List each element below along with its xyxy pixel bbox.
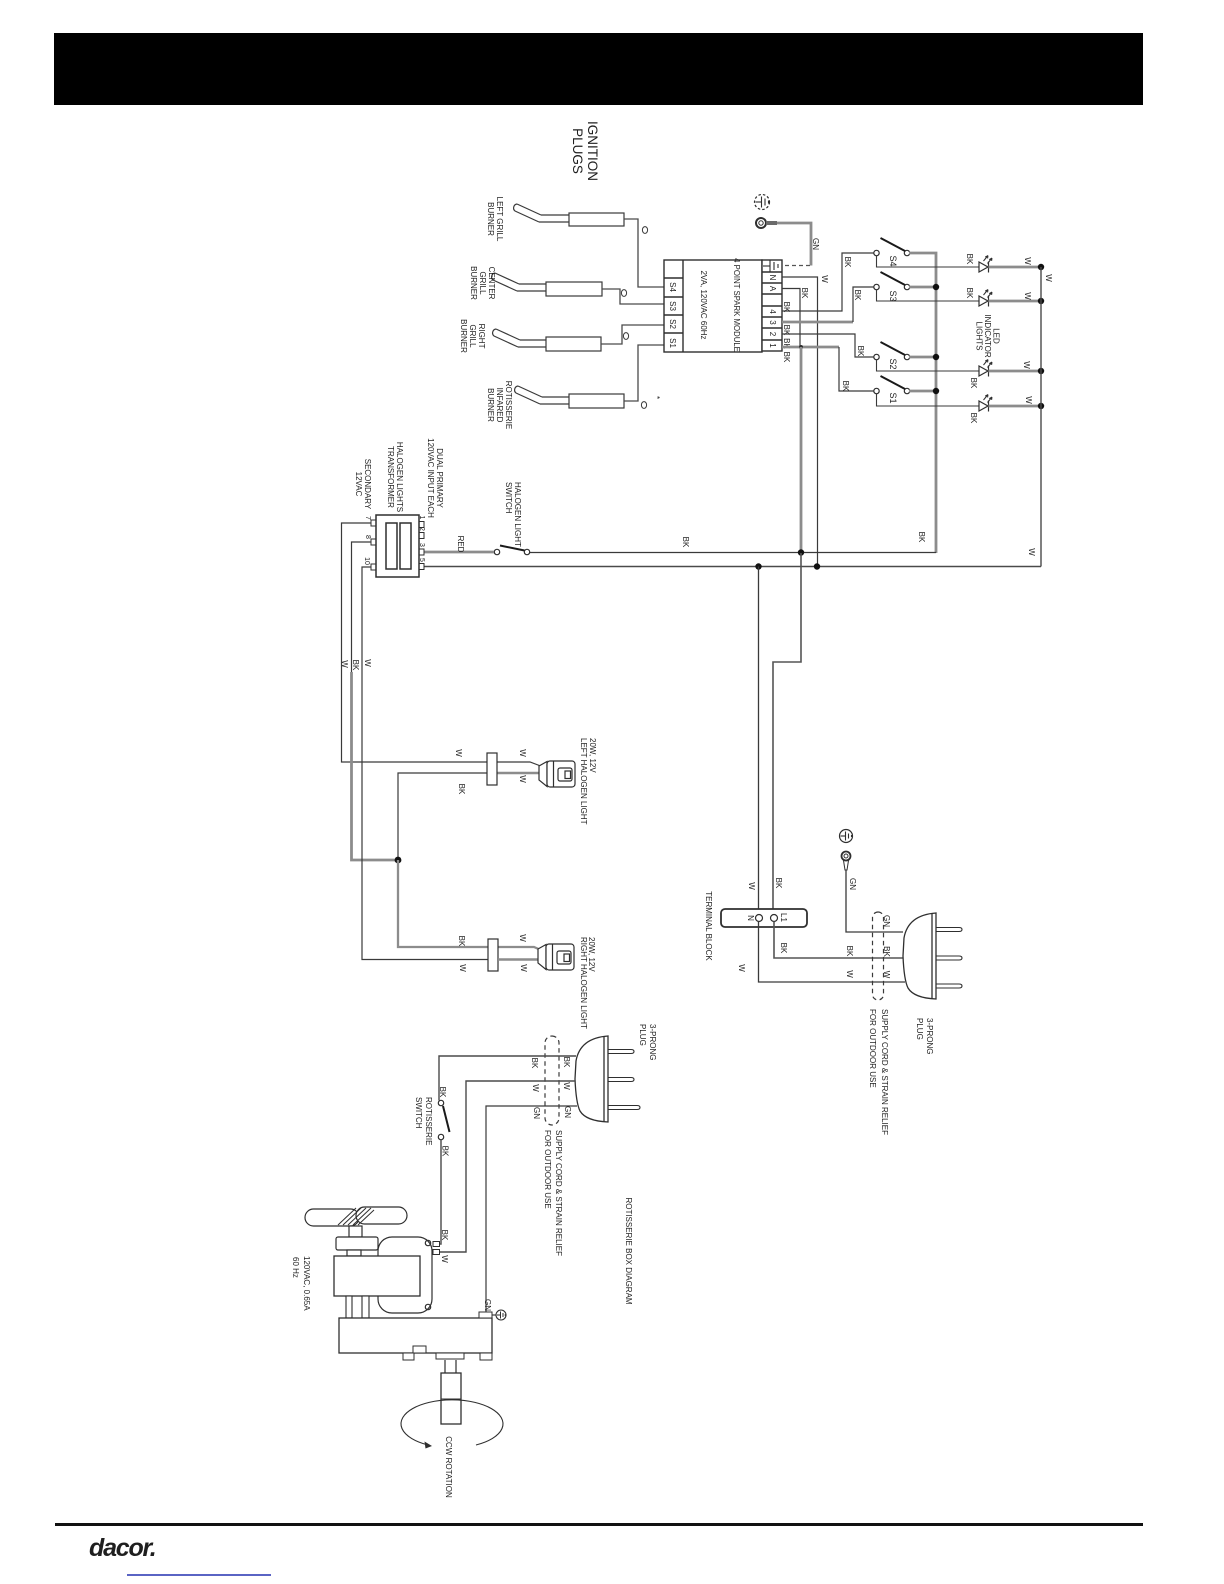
svg-text:BK: BK	[457, 936, 466, 947]
svg-text:GN: GN	[563, 1106, 572, 1118]
GN tab motor base	[479, 1312, 492, 1318]
rotisserie motor M1 fan blades	[305, 1207, 407, 1226]
svg-text:BK: BK	[782, 352, 791, 363]
svg-text:7: 7	[364, 516, 371, 520]
junction LED1 W bus	[1038, 264, 1044, 270]
svg-text:BK: BK	[800, 288, 809, 299]
plug P2 prong BK	[608, 1050, 634, 1054]
svg-text:4: 4	[768, 309, 777, 314]
motor legs	[346, 1296, 369, 1318]
module pin earth ground	[763, 260, 778, 273]
motor collar	[336, 1237, 378, 1250]
output shaft	[445, 1360, 456, 1373]
svg-text:INFARED: INFARED	[495, 388, 504, 423]
svg-text:W: W	[845, 970, 854, 978]
svg-text:20W, 12V: 20W, 12V	[588, 738, 597, 773]
svg-text:TRANSFORMER: TRANSFORMER	[386, 446, 395, 508]
svg-text:HALOGEN LIGHTS: HALOGEN LIGHTS	[395, 442, 404, 512]
svg-text:S3: S3	[888, 290, 898, 301]
switch S1	[874, 376, 910, 404]
svg-text:BK: BK	[965, 254, 974, 265]
ring terminal ground lug top	[756, 218, 777, 228]
connector O on E3 wire	[623, 333, 628, 340]
module terminal strip right	[762, 260, 782, 351]
svg-text:8: 8	[364, 535, 371, 539]
wire W LED1 to bus	[989, 266, 1042, 269]
module text 4 POINT SPARK MODULE 2VA 120VAC 60Hz	[699, 258, 741, 352]
svg-text:BK: BK	[843, 257, 852, 268]
base foot mid	[436, 1353, 464, 1359]
svg-text:W: W	[1027, 548, 1036, 556]
connector O on E4 wire	[641, 402, 646, 409]
svg-text:BK: BK	[856, 346, 865, 357]
terminal block TB1	[721, 909, 807, 927]
connector left lamp	[487, 753, 497, 785]
LED D1	[979, 395, 992, 412]
wire BK transformer pin8 to lamp junction	[352, 542, 399, 860]
svg-text:BK: BK	[530, 1058, 539, 1069]
svg-text:RED: RED	[456, 536, 465, 553]
wire igniter E2 to module S3	[602, 289, 664, 304]
fan hub hatch	[338, 1208, 374, 1225]
svg-text:W: W	[518, 775, 527, 783]
svg-text:BK: BK	[853, 290, 862, 301]
plug P1 prong GN	[936, 928, 962, 932]
wire BK module 1 to switch S1	[782, 347, 874, 391]
transformer T1 box	[376, 515, 419, 577]
title IGNITION PLUGS	[570, 121, 600, 181]
3-prong plug P1 body	[903, 913, 936, 999]
svg-text:W: W	[820, 275, 829, 283]
label CENTER GRILL BURNER	[469, 266, 496, 300]
svg-text:BK: BK	[441, 1146, 450, 1157]
svg-text:BURNER: BURNER	[486, 388, 495, 422]
igniter plug E3 RIGHT GRILL BURNER	[493, 329, 601, 351]
chassis ground symbol mid	[840, 830, 853, 843]
wire GN plug P2 to motor base	[486, 1106, 577, 1313]
label LED INDICATOR LIGHTS	[975, 314, 1001, 357]
igniter plug E1 LEFT GRILL BURNER	[514, 204, 624, 226]
svg-text:W: W	[518, 749, 527, 757]
LED D2	[979, 360, 992, 377]
switch S4	[874, 238, 910, 267]
label 3-PRONG PLUG	[915, 1018, 934, 1054]
junction LED2 W bus	[1038, 298, 1044, 304]
svg-text:W: W	[562, 1082, 571, 1090]
chassis ground symbol top	[755, 195, 770, 210]
transformer pin stubs left	[371, 520, 376, 570]
wire BK module 2 to switch S2	[782, 334, 874, 357]
svg-text:GN: GN	[811, 238, 820, 250]
wire BK terminal block to plug	[774, 922, 905, 959]
svg-text:N: N	[768, 275, 777, 281]
svg-text:SWITCH: SWITCH	[414, 1097, 423, 1129]
wire BK main feed jog to terminal block L1	[773, 553, 801, 915]
LED D4	[979, 256, 992, 273]
strain relief dashed outline rotisserie cord	[545, 1036, 559, 1125]
svg-text:3-PRONG: 3-PRONG	[925, 1018, 934, 1054]
label ROTISSERIE INFARED BURNER	[486, 381, 513, 429]
svg-text:BK: BK	[782, 302, 791, 313]
switch S3	[874, 272, 910, 302]
svg-text:PLUGS: PLUGS	[570, 128, 585, 174]
svg-text:2: 2	[768, 332, 777, 337]
svg-text:HALOGEN LIGHT: HALOGEN LIGHT	[513, 482, 522, 547]
wire BK halogen switch line	[530, 552, 936, 554]
svg-text:ROTISSERIE BOX DIAGRAM: ROTISSERIE BOX DIAGRAM	[624, 1197, 633, 1304]
svg-text:SWITCH: SWITCH	[504, 482, 513, 514]
svg-text:RIGHT: RIGHT	[477, 324, 486, 349]
igniter plug E4 ROTISSERIE INFARED BURNER	[515, 386, 624, 408]
svg-text:BK: BK	[845, 946, 854, 957]
svg-text:A: A	[768, 286, 777, 292]
rotisserie 3-prong plug P2 body	[575, 1036, 608, 1122]
svg-text:W: W	[518, 934, 527, 942]
wire BK module 4 to switch S4	[782, 253, 874, 311]
svg-text:CENTER: CENTER	[487, 267, 496, 300]
svg-text:W: W	[1044, 274, 1053, 282]
label SUPPLY CORD & STRAIN RELIEF FOR OUTDOOR USE	[868, 1009, 889, 1135]
label DUAL PRIMARY 120VAC INPUT EACH	[426, 438, 444, 518]
wire BK main feed down from junction	[800, 347, 803, 553]
wire igniter E4 to module S1	[624, 345, 664, 401]
svg-text:DUAL PRIMARY: DUAL PRIMARY	[435, 448, 444, 508]
svg-text:3-PRONG: 3-PRONG	[648, 1024, 657, 1060]
rotation ellipse arrow	[401, 1400, 503, 1449]
svg-text:S1: S1	[888, 392, 898, 403]
plug P2 prong W	[608, 1078, 634, 1082]
svg-text:PLUG: PLUG	[638, 1024, 647, 1046]
wire BK switch common bus vertical	[909, 253, 936, 553]
igniter plug E2 CENTER GRILL BURNER	[492, 273, 602, 296]
wire W from module N down to W bus	[782, 277, 818, 567]
motor body	[334, 1256, 420, 1296]
wire GN ring to plug	[846, 870, 903, 932]
svg-text:BURNER: BURNER	[486, 202, 495, 236]
svg-text:RIGHT HALOGEN LIGHT: RIGHT HALOGEN LIGHT	[579, 937, 588, 1029]
svg-text:W: W	[747, 882, 756, 890]
wire BK plug P2 to rotisserie switch	[439, 1056, 576, 1100]
left halogen lamp L1	[539, 761, 575, 787]
halogen light switch SW1	[494, 546, 529, 555]
wire S1 to LED4	[877, 394, 980, 406]
wire W transformer pin7 to left lamp	[342, 523, 543, 767]
wire GN ring terminal to module earth pin	[777, 223, 811, 266]
svg-text:BK: BK	[457, 784, 466, 795]
label ROTISSERIE SWITCH	[414, 1097, 433, 1145]
junction W bus to terminal block feed	[755, 563, 761, 569]
svg-text:W: W	[519, 964, 528, 972]
transformer pin stubs right	[419, 522, 424, 570]
wire W transformer pin10 to right lamp	[362, 567, 544, 963]
footer rule	[55, 1523, 1143, 1526]
switch S2	[874, 342, 910, 370]
wire BK rotisserie switch to motor	[440, 1140, 442, 1244]
svg-text:N: N	[746, 915, 755, 921]
svg-text:ROTISSERIE: ROTISSERIE	[424, 1097, 433, 1145]
svg-text:2VA, 120VAC 60Hz: 2VA, 120VAC 60Hz	[699, 270, 708, 339]
motor shaft lower	[347, 1250, 361, 1256]
svg-text:3: 3	[418, 543, 425, 547]
right halogen lamp L2	[538, 944, 574, 970]
svg-text:W: W	[1023, 257, 1032, 265]
svg-text:LIGHTS: LIGHTS	[975, 322, 984, 351]
svg-text:W: W	[363, 659, 372, 667]
svg-text:2: 2	[418, 527, 425, 531]
svg-text:S1: S1	[668, 338, 677, 348]
svg-text:W: W	[458, 964, 467, 972]
svg-text:S3: S3	[668, 301, 677, 311]
wire W LED3 to bus	[989, 370, 1042, 373]
svg-text:LEFT GRILL: LEFT GRILL	[495, 197, 504, 242]
svg-text:LEFT HALOGEN LIGHT: LEFT HALOGEN LIGHT	[579, 738, 588, 825]
wire S4 to LED1	[877, 256, 980, 267]
wire W horizontal bus	[424, 566, 1041, 568]
svg-text:W: W	[440, 1255, 449, 1263]
svg-text:ROTISSERIE: ROTISSERIE	[504, 381, 513, 429]
junction S2 common	[933, 354, 939, 360]
base foot right	[480, 1353, 492, 1360]
header black bar	[54, 33, 1143, 105]
connector right lamp	[488, 939, 498, 971]
svg-text:GRILL: GRILL	[468, 324, 477, 348]
svg-text:BK: BK	[438, 1087, 447, 1098]
wire W right lamp thick segment	[498, 958, 541, 961]
svg-text:BK: BK	[779, 943, 788, 954]
ring terminal ground lug mid	[842, 852, 851, 871]
label LEFT GRILL BURNER	[486, 197, 504, 242]
svg-text:GN: GN	[848, 878, 857, 890]
wire BK module 3 to switch S3	[782, 287, 874, 322]
label SECONDARY 12VAC	[354, 459, 372, 510]
wire S2 to LED3	[877, 360, 980, 371]
svg-text:BURNER: BURNER	[459, 319, 468, 353]
ground symbol motor	[492, 1310, 506, 1320]
label 20W 12V LEFT HALOGEN LIGHT	[579, 738, 597, 825]
label RIGHT GRILL BURNER	[459, 319, 486, 353]
svg-text:*: *	[652, 396, 661, 399]
spark module U1 4 POINT SPARK MODULE	[664, 260, 762, 352]
svg-text:S2: S2	[888, 358, 898, 369]
svg-text:120VAC INPUT EACH: 120VAC INPUT EACH	[426, 438, 435, 518]
svg-text:W: W	[531, 1084, 540, 1092]
svg-text:GRILL: GRILL	[478, 271, 487, 295]
label 120VAC 0.65A 60 Hz	[291, 1256, 311, 1311]
motor shaft upper	[349, 1226, 362, 1237]
svg-text:W: W	[454, 749, 463, 757]
LED D3	[979, 290, 992, 307]
svg-text:W: W	[1024, 396, 1033, 404]
connector O on E1 wire	[642, 227, 647, 234]
svg-text:10: 10	[363, 557, 370, 565]
svg-text:120VAC, 0.65A: 120VAC, 0.65A	[302, 1256, 311, 1311]
connector O on E2 wire	[621, 290, 626, 297]
label 20W 12V RIGHT HALOGEN LIGHT	[579, 937, 596, 1029]
gearbox base	[339, 1318, 492, 1353]
svg-text:S4: S4	[888, 255, 898, 266]
junction LED4 W bus	[1038, 403, 1044, 409]
rotisserie switch SW2	[438, 1100, 449, 1139]
svg-text:W: W	[340, 660, 349, 668]
svg-text:GN: GN	[532, 1107, 541, 1119]
svg-text:BK: BK	[440, 1230, 449, 1241]
svg-text:1: 1	[768, 343, 777, 348]
svg-text:12VAC: 12VAC	[354, 472, 363, 497]
svg-text:L1: L1	[779, 913, 788, 922]
svg-text:BK: BK	[562, 1057, 571, 1068]
base notch	[413, 1346, 426, 1353]
wire RED transformer pin3 to switch	[424, 551, 494, 554]
motor mount plate	[378, 1237, 432, 1313]
junction S3 common	[933, 284, 939, 290]
spit chuck	[441, 1373, 461, 1424]
svg-text:TERMINAL BLOCK: TERMINAL BLOCK	[704, 891, 713, 961]
label SUPPLY CORD & STRAIN RELIEF FOR OUTDOOR USE rotisserie	[543, 1130, 563, 1256]
footer blue rule	[127, 1574, 271, 1576]
wire W LED4 to bus	[989, 405, 1042, 408]
wire BK junction to right lamp	[398, 860, 543, 951]
svg-text:dacor.: dacor.	[89, 1534, 155, 1562]
svg-text:W: W	[737, 964, 746, 972]
wire igniter E1 to module S4	[624, 219, 664, 287]
left halogen lamp wires	[398, 773, 545, 860]
svg-text:PLUG: PLUG	[915, 1018, 924, 1040]
junction halogen secondary	[395, 857, 402, 864]
svg-text:BK: BK	[965, 288, 974, 299]
motor terminal BK tab	[433, 1242, 440, 1247]
svg-text:BK: BK	[351, 660, 360, 671]
wire W bus vertical right	[1040, 267, 1042, 567]
junction W bus to module N wire	[814, 563, 820, 569]
svg-text:1: 1	[418, 516, 425, 520]
svg-text:3: 3	[768, 320, 777, 325]
junction BK main feed halogen line	[798, 549, 804, 555]
svg-text:BK: BK	[681, 537, 690, 548]
svg-text:60 Hz: 60 Hz	[291, 1257, 300, 1278]
svg-text:SUPPLY CORD & STRAIN RELIEF: SUPPLY CORD & STRAIN RELIEF	[880, 1009, 889, 1135]
junction LED3 W bus	[1038, 368, 1044, 374]
label HALOGEN LIGHT SWITCH	[504, 482, 522, 547]
strain relief dashed outline supply cord	[873, 912, 884, 1000]
wire S3 to LED2	[877, 290, 980, 301]
svg-text:W: W	[1023, 292, 1032, 300]
svg-text:SUPPLY CORD & STRAIN RELIEF: SUPPLY CORD & STRAIN RELIEF	[554, 1130, 563, 1256]
svg-text:CCW ROTATION: CCW ROTATION	[444, 1436, 453, 1498]
wire W terminal block to plug	[759, 922, 906, 983]
svg-text:IGNITION: IGNITION	[585, 121, 600, 181]
junction A wire and terminal 1 wire	[799, 345, 803, 349]
svg-text:FOR OUTDOOR USE: FOR OUTDOOR USE	[543, 1130, 552, 1209]
svg-text:BK: BK	[969, 378, 978, 389]
wire W bus down to terminal block N	[758, 567, 760, 915]
plug P1 prong BK	[936, 956, 962, 960]
svg-text:BK: BK	[917, 532, 926, 543]
wire igniter E3 to module S2	[601, 325, 664, 344]
plug P2 prong GN	[608, 1106, 640, 1110]
wire BK from module A down to junction	[782, 289, 800, 348]
wire W plug P2 to motor	[440, 1081, 576, 1252]
svg-text:5: 5	[418, 558, 425, 562]
motor terminal W tab	[433, 1250, 440, 1255]
svg-text:4 POINT SPARK MODULE: 4 POINT SPARK MODULE	[732, 258, 741, 352]
svg-text:GN: GN	[483, 1299, 492, 1311]
svg-text:S2: S2	[668, 319, 677, 329]
svg-text:BK: BK	[774, 878, 783, 889]
label HALOGEN LIGHTS TRANSFORMER	[386, 442, 404, 512]
svg-text:BURNER: BURNER	[469, 266, 478, 300]
svg-text:BK: BK	[841, 381, 850, 392]
wire W LED2 to bus	[989, 300, 1042, 303]
plug P1 prong W	[936, 984, 962, 988]
svg-text:BK: BK	[969, 413, 978, 424]
svg-text:FOR OUTDOOR USE: FOR OUTDOOR USE	[868, 1009, 877, 1088]
svg-text:S4: S4	[668, 282, 677, 292]
svg-text:W: W	[1022, 361, 1031, 369]
junction S1 common	[933, 388, 939, 394]
base foot left	[403, 1353, 414, 1360]
svg-text:SECONDARY: SECONDARY	[363, 459, 372, 510]
label 3-PRONG PLUG rotisserie	[638, 1024, 657, 1060]
